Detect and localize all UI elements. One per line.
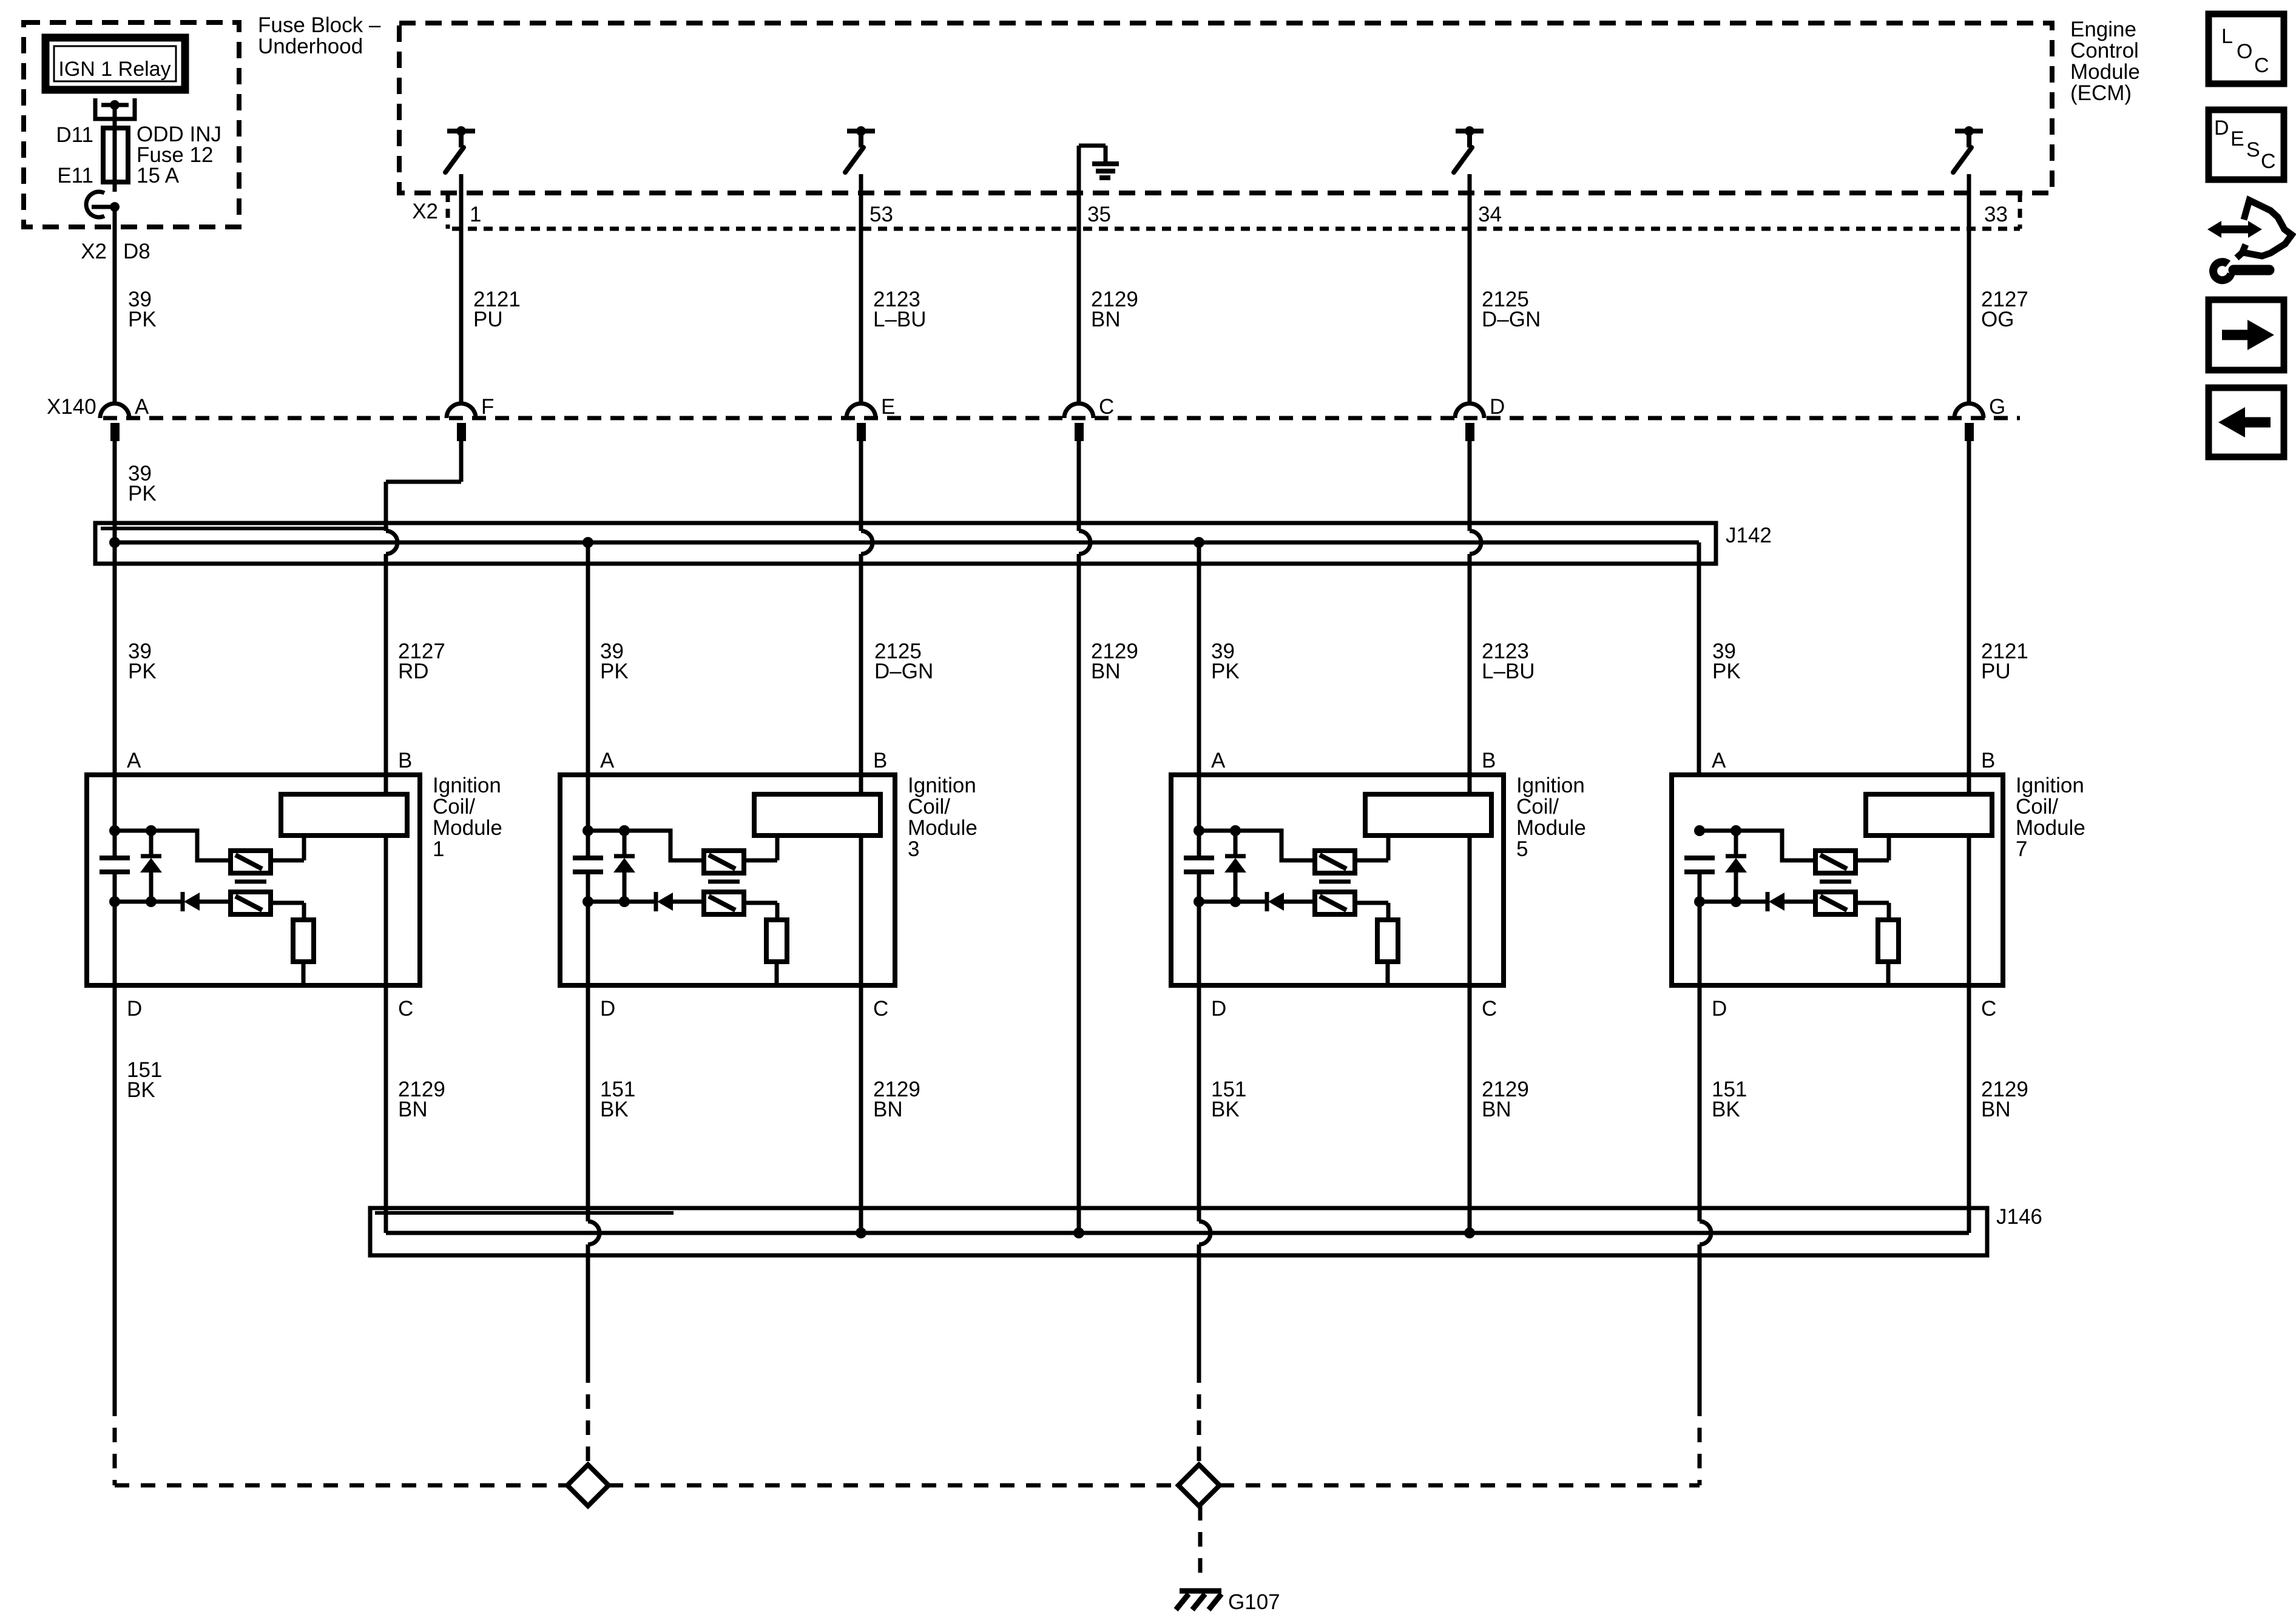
ignition coil/module 5 [1171,775,1504,985]
ignition coil/module 1 [87,775,420,985]
svg-text:15 A: 15 A [137,164,180,187]
wire 39 PK below X140 A [113,441,117,542]
svg-text:X2: X2 [81,240,107,263]
svg-text:Module: Module [2070,60,2140,84]
driver upper module 7 [1815,851,1855,873]
svg-text:BK: BK [127,1078,155,1102]
svg-text:BK: BK [1712,1098,1740,1121]
B-C wire module 7 [1967,775,1971,794]
ground G107 symbol [1180,1588,1221,1594]
core bar module 1 [235,880,266,884]
core bar module 5 [1319,880,1351,884]
wire down to J142 crossing [384,482,388,531]
diode module 3 [654,892,658,911]
icon DESC box [2209,110,2284,180]
wire 2129 BN m7 to J146 [1967,985,1971,1233]
svg-text:BN: BN [1482,1098,1511,1121]
svg-text:Ignition: Ignition [908,774,976,797]
driver lower module 5 [1315,892,1355,914]
svg-text:Fuse Block –: Fuse Block – [258,13,381,37]
diode module 5 [1265,892,1269,911]
hop crossing J142 at x=2422 [1470,531,1481,554]
junction J146 m5 C [1464,1227,1475,1238]
svg-text:X140: X140 [47,395,96,419]
hop crossing J142 at x=636 [386,531,397,554]
wire 151 BK m5 down to J146 hop [1197,985,1201,1221]
dashed wire m3 to splice diamond [586,1368,590,1465]
ECM driver pin 34 [1456,129,1484,133]
zener diode module 5 [1234,831,1238,858]
wire 2121 PU jog from F to module1 B column [459,441,464,482]
X2 row right tick [2018,193,2022,229]
wire A-D inside module 1 [113,872,117,985]
svg-text:5: 5 [1516,837,1528,861]
X140 terminal E [846,403,876,418]
svg-text:RD: RD [398,660,429,683]
driver upper module 3 [704,851,744,873]
row2 link module 1 [115,900,183,904]
driver lower module 3 [704,892,744,914]
svg-text:Engine: Engine [2070,18,2136,41]
svg-text:C: C [873,997,888,1021]
svg-text:C: C [2261,150,2276,173]
wire E down [859,441,863,531]
core bar module 7 [1820,880,1851,884]
svg-text:D: D [1211,997,1226,1021]
wire 151 BK m3 below J146 [586,1244,590,1368]
svg-text:O: O [2237,40,2252,63]
svg-text:C: C [398,997,413,1021]
wire continues below J142 at x=1419 [859,554,863,775]
wire continues below J142 at x=2422 [1468,554,1472,775]
wire C down [1077,441,1081,531]
row1 link module 5 [1199,829,1235,833]
svg-text:BN: BN [1091,660,1121,683]
svg-text:B: B [1482,749,1496,772]
svg-text:Module: Module [2016,816,2085,840]
wires driver to winding/resistor module 7 [1855,859,1889,863]
svg-text:G107: G107 [1228,1590,1280,1614]
svg-text:Coil/: Coil/ [908,795,950,819]
svg-text:L–BU: L–BU [873,308,927,331]
svg-text:OG: OG [1981,308,2014,331]
svg-text:D: D [1490,395,1505,419]
splice diamond right G107 feed [1178,1465,1220,1506]
svg-text:35: 35 [1087,203,1111,226]
B-C wire module 3 [859,775,863,794]
B-C wire module 5 [1468,775,1472,794]
ignition coil/module 7 [1672,775,2003,985]
core bar module 3 [708,880,740,884]
wire 2129 BN m3 to J146 [859,985,863,1233]
dashed ground run left [115,1484,567,1488]
svg-text:BK: BK [1211,1098,1240,1121]
hop crossing J142 at x=1419 [861,531,873,554]
dashed wire m5 to splice diamond [1197,1368,1201,1465]
primary winding module 5 [1365,794,1491,836]
svg-text:34: 34 [1478,203,1502,226]
svg-text:BN: BN [1091,308,1121,331]
svg-text:D: D [600,997,615,1021]
svg-text:D: D [2214,116,2229,140]
svg-text:L: L [2221,25,2233,48]
capacitor C module 5 [1184,856,1214,860]
svg-text:(ECM): (ECM) [2070,81,2132,105]
wires driver to winding/resistor module 1 [271,859,304,863]
ground symbol in ECM bar1 [1092,161,1119,166]
svg-text:D: D [1712,997,1727,1021]
ECM driver pin 1 [447,129,475,133]
svg-text:D–GN: D–GN [1482,308,1541,331]
svg-text:A: A [1211,749,1226,772]
icon electrical information: double arrow, panel outline, wrench [2216,226,2254,234]
driver lower module 1 [231,892,271,914]
svg-text:BN: BN [873,1098,903,1121]
icon forward arrow box [2209,300,2284,370]
svg-text:Coil/: Coil/ [433,795,475,819]
svg-text:E: E [881,395,895,419]
wire 39 PK down to X140 [113,207,117,403]
svg-text:J146: J146 [1996,1205,2042,1229]
junction J146 2129 BN feed [1073,1227,1084,1238]
junction relay output [110,100,120,110]
dashed wire to G107 [1198,1506,1203,1582]
svg-text:Coil/: Coil/ [2016,795,2058,819]
connector stub arc [86,192,104,217]
wire fuse to connector [113,182,117,192]
svg-text:B: B [1981,749,1995,772]
ignition coil/module 3 [560,775,895,985]
wire 2129 BN m1 to J146 [384,985,388,1233]
svg-text:Coil/: Coil/ [1516,795,1559,819]
resistor module 1 [293,920,314,962]
dashed wire m1 to ground run [113,1402,117,1485]
ECM driver pin 33 [1955,129,1983,133]
wire row1 to driver module 1 [151,831,231,860]
wire 39 PK J142 to module3 A [586,542,590,858]
hop crossing J146 at x=2801 [1700,1221,1711,1244]
relay contact bracket [95,98,135,119]
row2 link module 3 [588,900,656,904]
X2 connector dashed line [452,227,2020,231]
wire A-D inside module 3 [586,872,590,985]
X140 terminal D [1455,403,1484,418]
svg-text:Module: Module [908,816,977,840]
svg-text:33: 33 [1984,203,2008,226]
svg-text:Module: Module [433,816,502,840]
svg-text:BN: BN [398,1098,428,1121]
svg-text:53: 53 [869,203,893,226]
row2 link module 7 [1700,900,1768,904]
svg-text:7: 7 [2016,837,2027,861]
svg-text:S: S [2246,138,2260,161]
splice pack J142 box [95,523,1716,564]
svg-text:PK: PK [128,660,157,683]
J142 internal bus conductor [115,541,1699,545]
svg-text:BN: BN [1981,1098,2011,1121]
primary winding module 3 [754,794,880,836]
X140 terminal A [100,403,129,418]
resistor module 3 [766,920,787,962]
splice diamond left [567,1465,609,1506]
svg-text:IGN 1 Relay: IGN 1 Relay [58,58,171,81]
driver upper module 1 [231,851,271,873]
dashed ground run middle [609,1484,1178,1488]
zener diode module 3 [623,831,627,858]
wires driver to winding/resistor module 3 [744,859,777,863]
wire continues below J142 at x=636 [384,554,388,775]
svg-text:C: C [1099,395,1114,419]
svg-text:Ignition: Ignition [1516,774,1585,797]
svg-text:B: B [873,749,887,772]
junction J142 to module 5 A [1194,537,1204,548]
hop crossing J142 at x=1778 [1079,531,1090,554]
wire 39 PK J142 to module5 A [1197,542,1201,858]
wire continues below J142 at x=1778 [1077,554,1081,1233]
diode module 7 [1766,892,1770,911]
dashed wire m7 to ground run [1698,1402,1702,1485]
svg-text:Control: Control [2070,39,2139,62]
wire 151 BK m5 below J146 [1197,1244,1201,1368]
wire through fuse [113,128,117,182]
wire 151 BK m1 down [113,985,117,1402]
row1 link module 1 [115,829,151,833]
junction J142 feed [109,537,120,548]
primary winding module 7 [1866,794,1992,836]
svg-text:D8: D8 [123,240,150,263]
fuse F12 ODD INJ 15A body [103,128,128,182]
svg-text:PK: PK [1712,660,1741,683]
wire 39 PK from J142 right end to module 7 A [1697,542,1701,775]
svg-text:E11: E11 [57,164,93,187]
svg-text:1: 1 [470,203,481,226]
svg-text:Underhood: Underhood [258,35,363,58]
driver upper module 5 [1315,851,1355,873]
connector X140 dashed line [103,416,2020,420]
svg-text:C: C [1981,997,1996,1021]
hop crossing J146 at x=969 [588,1221,599,1244]
svg-text:Ignition: Ignition [433,774,501,797]
resistor module 7 [1878,920,1899,962]
wire ECM pin53 down [859,174,863,403]
svg-text:PK: PK [128,482,157,505]
svg-text:D11: D11 [56,123,93,147]
svg-text:A: A [1712,749,1726,772]
svg-text:1: 1 [433,837,444,861]
svg-text:C: C [2254,54,2269,77]
wire 2121 PU G down to module 7 B [1967,441,1971,775]
svg-text:PU: PU [473,308,503,331]
wire row1 to driver module 3 [624,831,704,860]
J146 inner seam [375,1211,674,1215]
icon LOC box [2209,14,2284,84]
capacitor C module 7 [1684,856,1715,860]
svg-text:A: A [135,395,149,419]
junction J142 to module 3 A [582,537,593,548]
relay IGN 1 Relay [46,38,185,90]
wire ECM pin1 down [459,174,464,403]
X2 row left tick [446,193,450,229]
svg-text:B: B [398,749,412,772]
svg-text:L–BU: L–BU [1482,660,1535,683]
engine control module ECM dashed box [399,23,2052,193]
splice pack J146 box [370,1208,1987,1255]
svg-text:PK: PK [1211,660,1240,683]
wires driver to winding/resistor module 5 [1355,859,1388,863]
ECM internal ground pin 35 [1077,146,1081,403]
X140 terminal F [447,403,476,418]
X140 terminal C [1064,403,1093,418]
svg-text:C: C [1482,997,1497,1021]
wire row1 to driver module 7 [1736,831,1815,860]
capacitor C module 1 [100,856,130,860]
J146 internal bus conductor [386,1231,1969,1235]
svg-text:E: E [2230,127,2244,150]
ECM driver pin 53 [847,129,875,133]
svg-text:BK: BK [600,1098,629,1121]
svg-text:J142: J142 [1726,524,1772,547]
icon back arrow box [2209,388,2284,457]
wire ECM pin34 down [1468,174,1472,403]
wire relay to fuse [113,105,117,128]
dashed ground run right [1220,1484,1700,1488]
wire 151 BK m7 down to J146 hop [1698,985,1702,1221]
svg-text:A: A [600,749,615,772]
wire A-D inside module 7 [1698,872,1702,985]
junction J146 m3 C [856,1227,866,1238]
svg-text:D: D [127,997,142,1021]
svg-text:X2: X2 [412,200,438,223]
B-C wire module 1 [384,775,388,794]
fuse block underhood dashed box [24,22,239,227]
svg-text:Ignition: Ignition [2016,774,2084,797]
wire 2129 BN m5 to J146 [1468,985,1472,1233]
X140 terminal G [1954,403,1984,418]
wire A-D inside module 5 [1197,872,1201,985]
svg-text:A: A [127,749,141,772]
row1 link module 7 [1700,829,1736,833]
row1 link module 3 [588,829,624,833]
svg-text:PK: PK [600,660,629,683]
primary winding module 1 [281,794,407,836]
wire 151 BK m3 down to J146 hop [586,985,590,1221]
wire row1 to driver module 5 [1235,831,1315,860]
wire 39 PK J142 to module1 A [113,542,117,858]
junction at X2 D8 [110,202,120,212]
zener diode module 7 [1734,831,1738,858]
svg-text:3: 3 [908,837,919,861]
row2 link module 5 [1199,900,1267,904]
zener diode module 1 [149,831,154,858]
driver lower module 7 [1815,892,1855,914]
svg-text:F: F [481,395,494,419]
wire ECM pin33 down [1967,174,1971,403]
svg-text:Module: Module [1516,816,1586,840]
svg-text:PU: PU [1981,660,2011,683]
svg-text:PK: PK [128,308,157,331]
wire D down [1468,441,1472,531]
capacitor C module 3 [573,856,603,860]
wire 151 BK m7 below J146 [1698,1244,1702,1402]
relay contact bar [101,103,129,107]
diode module 1 [181,892,185,911]
J142 inner seam [101,527,388,530]
resistor module 5 [1377,920,1398,962]
hop crossing J146 at x=1976 [1199,1221,1210,1244]
svg-text:G: G [1989,395,2005,419]
svg-text:D–GN: D–GN [874,660,933,683]
